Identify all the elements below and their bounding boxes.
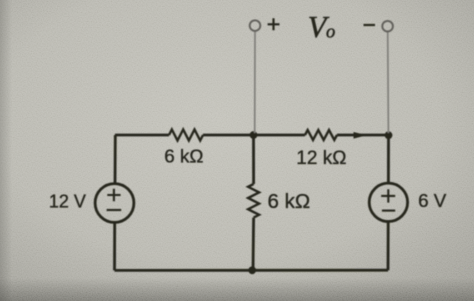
voltage source V1 12V circle — [95, 184, 134, 223]
wire: left branch upper — [114, 135, 117, 184]
wire: top rail left segment — [115, 134, 169, 137]
node: top right junction — [385, 131, 393, 139]
svg-text:6 kΩ: 6 kΩ — [164, 145, 203, 166]
wire: thin lead from plus terminal — [254, 32, 256, 134]
wire: top rail right segment — [337, 134, 389, 137]
node: bottom middle junction — [248, 266, 256, 274]
wire: right branch lower — [387, 222, 390, 270]
V2 plus sign — [381, 189, 395, 202]
voltage source V2 6V circle — [369, 183, 407, 221]
svg-text:o: o — [326, 23, 335, 43]
wire: left branch lower — [113, 223, 116, 271]
wire: middle branch upper — [252, 135, 255, 184]
V2 minus sign — [382, 210, 395, 212]
terminal: plus open circle — [250, 20, 261, 31]
svg-text:6 V: 6 V — [418, 190, 447, 211]
resistor R2 12k zigzag — [305, 130, 337, 140]
V1 plus sign — [107, 189, 120, 202]
wire: middle branch lower — [252, 218, 255, 271]
label: plus polarity mark — [268, 18, 280, 30]
V1 minus sign — [107, 209, 122, 211]
terminal: minus open circle — [382, 21, 393, 32]
svg-text:12 kΩ: 12 kΩ — [296, 148, 346, 169]
label: minus polarity mark — [364, 24, 376, 26]
node: top middle junction — [250, 131, 258, 139]
resistor R3 6k vertical zigzag — [248, 184, 259, 218]
wire: right branch upper — [387, 135, 390, 183]
wire: thin lead from minus terminal — [387, 32, 390, 133]
svg-text:6 kΩ: 6 kΩ — [268, 190, 311, 213]
wire: top rail middle segment — [203, 134, 305, 137]
current arrow on wire — [354, 132, 367, 139]
wire: bottom rail — [115, 269, 389, 272]
svg-text:12 V: 12 V — [49, 192, 86, 212]
resistor R1 6k zigzag — [169, 130, 203, 141]
